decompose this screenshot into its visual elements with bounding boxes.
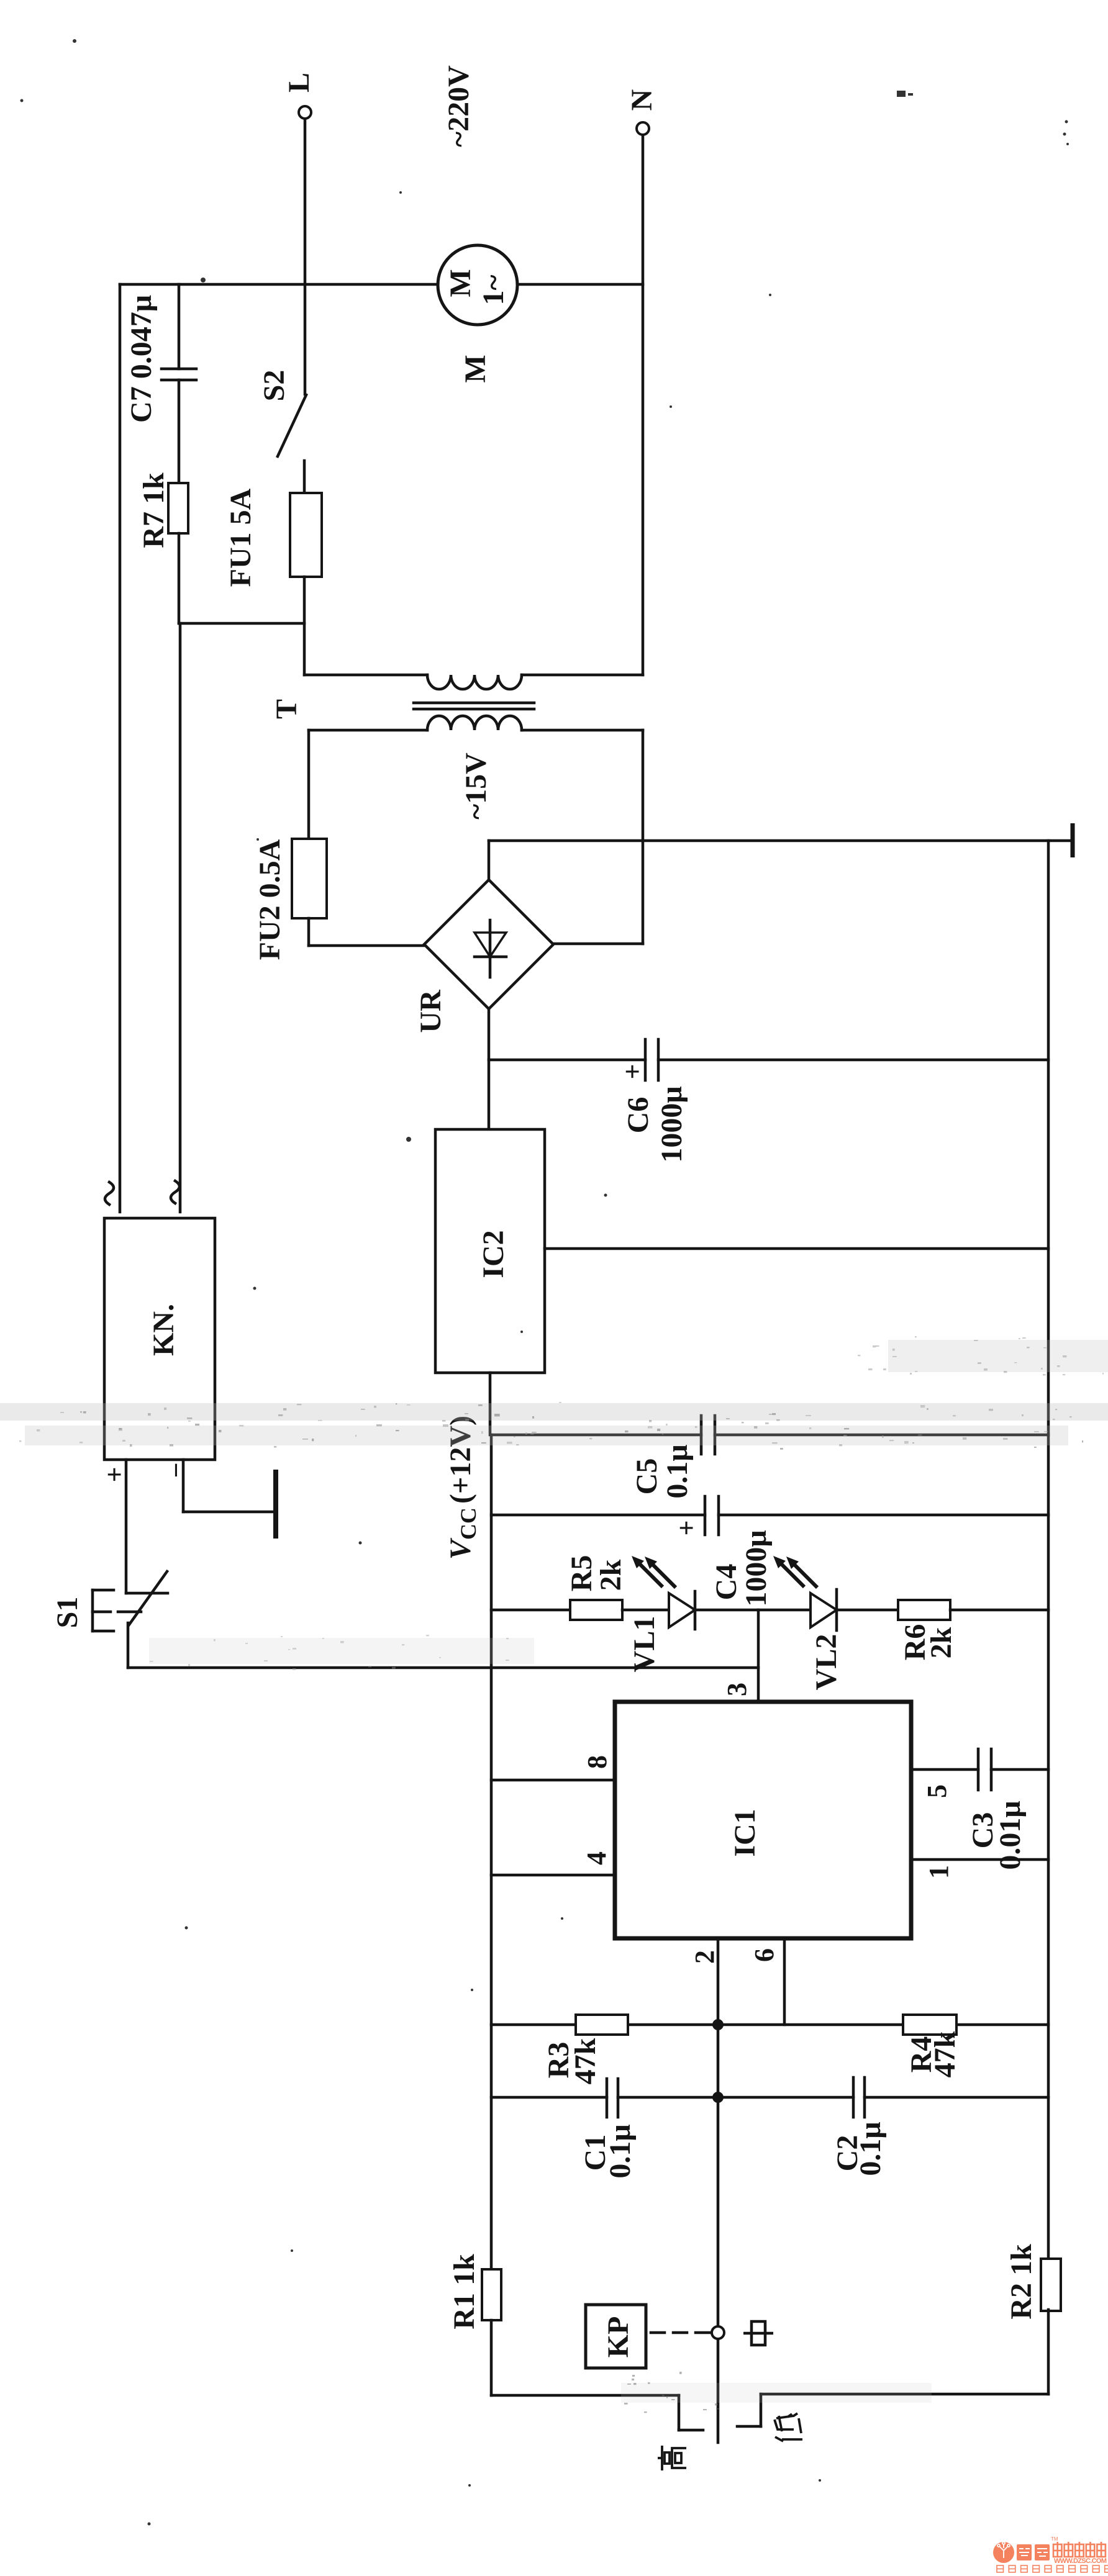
pin 1 wire (911, 1858, 1048, 1861)
svg-text:M: M (444, 269, 477, 297)
transformer T primary coil (427, 675, 522, 689)
wire top bus left (120, 283, 438, 286)
selector wiper node (712, 2326, 724, 2339)
LED VL2 (773, 1556, 843, 1690)
svg-text:S2: S2 (258, 370, 291, 402)
wire IC2 out to Vcc bus (489, 1373, 492, 1435)
svg-text:6: 6 (749, 1948, 779, 1962)
capacitor C7 0.047u (125, 284, 196, 483)
wire FU2 to bridge left (309, 918, 424, 946)
svg-text:1: 1 (924, 1865, 954, 1879)
pin 2 wire down (717, 1938, 720, 2327)
resistor R7 1k (137, 472, 188, 548)
wire ground line (489, 839, 1073, 843)
capacitor C5 0.1u (491, 1416, 1048, 1499)
switch S2 (258, 370, 306, 456)
pushbutton S1 (51, 1571, 168, 1631)
regulator IC2 (435, 1129, 545, 1373)
wire pin3 stub (757, 1610, 760, 1702)
wire VL2 to R6 (837, 1609, 898, 1612)
svg-text:4: 4 (581, 1851, 612, 1865)
wire bridge top to ground line (488, 841, 491, 880)
watermark slogan glyphs (997, 2565, 1004, 2572)
svg-text:C5: C5 (630, 1458, 663, 1495)
wire VL1 to VL2 with pin3 tap (694, 1609, 809, 1612)
power unit KN (104, 1218, 215, 1460)
junction dot pin2 C1 line (712, 2092, 724, 2103)
capacitor C1 0.1u (491, 2079, 853, 2179)
fuse FU2 0.5A (253, 839, 327, 960)
svg-text:0.1μ: 0.1μ (661, 1444, 694, 1498)
svg-text:1~: 1~ (477, 274, 510, 305)
resistor R6 2k (898, 1600, 958, 1660)
wire top bus right (517, 283, 643, 286)
svg-text:47k: 47k (569, 2038, 602, 2084)
selector wiper wire (717, 2339, 720, 2443)
dashed link KP to wiper (651, 2331, 711, 2334)
svg-text:N: N (625, 89, 658, 111)
svg-text:+: + (671, 1520, 702, 1535)
transformer T secondary wire left (309, 730, 427, 839)
resistor R2 1k (1005, 2244, 1061, 2320)
node L terminal (283, 73, 316, 119)
wire R2 down to low line (1047, 2310, 1050, 2394)
svg-text:UR: UR (414, 989, 447, 1033)
svg-text:WWW.DZSC.COM: WWW.DZSC.COM (1054, 2557, 1107, 2565)
label di (low) (774, 2413, 802, 2441)
AC mark tilde right wire (171, 1181, 179, 1203)
svg-text:M: M (459, 355, 492, 382)
capacitor C2 0.1u (831, 2077, 1048, 2176)
transformer T secondary coil (427, 716, 522, 730)
svg-text:−: − (161, 1462, 191, 1478)
wire S2 to FU1 (303, 461, 306, 493)
svg-text:KP: KP (602, 2316, 635, 2358)
transformer T secondary wire right (522, 730, 643, 944)
svg-text:R5: R5 (565, 1555, 598, 1592)
scan noise band (0, 1336, 1108, 2413)
svg-text:R7 1k: R7 1k (137, 472, 170, 548)
svg-text:0.1μ: 0.1μ (604, 2124, 637, 2178)
pin 5 wire (911, 1768, 1048, 1771)
svg-text:FU1 5A: FU1 5A (224, 488, 257, 587)
svg-text:3: 3 (722, 1683, 752, 1696)
svg-text:+: + (617, 1064, 648, 1079)
pin 4 wire (491, 1874, 615, 1877)
watermark title glyphs (1053, 2542, 1062, 2557)
svg-text:8: 8 (582, 1755, 612, 1769)
AC mark tilde left wire (105, 1182, 114, 1204)
svg-text:KN.: KN. (147, 1304, 180, 1356)
svg-text:R1 1k: R1 1k (448, 2254, 481, 2330)
svg-text:1000μ: 1000μ (655, 1086, 688, 1162)
wire Vcc bus (490, 1435, 493, 2269)
ground bar KN (273, 1470, 278, 1539)
svg-text:2k: 2k (925, 1627, 958, 1658)
svg-text:IC1: IC1 (729, 1809, 761, 1856)
label zhong (middle) (743, 2321, 773, 2345)
wire S1 down (127, 1623, 130, 1668)
fuse FU1 5A (224, 488, 322, 587)
svg-text:FU2 0.5A: FU2 0.5A (253, 839, 286, 960)
wire FU1 to primary (303, 577, 306, 675)
wire R7 down to jog and KN (178, 533, 181, 623)
label gao (high) (658, 2446, 686, 2470)
svg-text:5: 5 (922, 1784, 952, 1798)
wire jog R7 chain to fuse wire (179, 622, 304, 625)
svg-text:S1: S1 (51, 1597, 84, 1629)
wire low contact line (737, 2394, 1048, 2426)
svg-text:L: L (283, 73, 316, 93)
transformer T core (414, 703, 534, 709)
sensor KP (586, 2305, 646, 2368)
wire KN - to ground (183, 1460, 274, 1512)
svg-text:C4: C4 (710, 1564, 743, 1601)
wire KN + to S1 (125, 1460, 128, 1593)
bridge rectifier UR (414, 880, 553, 1033)
svg-text:2: 2 (689, 1950, 720, 1964)
svg-text:IC2: IC2 (477, 1230, 510, 1278)
svg-text:47k: 47k (929, 2031, 961, 2077)
capacitor C4 1000u (491, 1496, 1048, 1607)
resistor R1 1k (448, 2254, 501, 2330)
svg-text:VL2: VL2 (810, 1634, 843, 1691)
wire L down to S2 (304, 119, 307, 394)
ground terminal bar (1071, 823, 1075, 857)
resistor R4 47k (903, 2015, 961, 2077)
resistor R5 2k (565, 1555, 627, 1620)
wire N down to transformer primary (642, 135, 645, 675)
wire R1 down (490, 2320, 493, 2395)
node N terminal (625, 89, 658, 135)
svg-text:1000μ: 1000μ (740, 1530, 773, 1606)
wire S1 line to IC1 pin3 stub (128, 1666, 758, 1670)
transformer T primary wire right (522, 674, 643, 677)
svg-text:T: T (270, 699, 303, 719)
wire LED line from Vcc (491, 1609, 570, 1612)
wire IC2 mid pin to ground bus (545, 1247, 1048, 1250)
wire high contact line (491, 2395, 703, 2430)
svg-text:~15V: ~15V (460, 752, 493, 820)
capacitor C6 1000u (489, 1039, 1048, 1163)
svg-text:R2 1k: R2 1k (1005, 2244, 1038, 2320)
wire R6 to ground bus (950, 1609, 1048, 1612)
junction dot pin2 R3 line (712, 2019, 724, 2030)
svg-text:C6: C6 (622, 1097, 655, 1134)
svg-text:VL1: VL1 (628, 1616, 661, 1673)
wire right ground bus (1047, 841, 1050, 2259)
capacitor C3 0.01u (966, 1749, 1027, 1870)
motor M1 (438, 245, 517, 325)
wire R5 to VL1 (622, 1609, 667, 1612)
svg-text:2k: 2k (594, 1559, 627, 1591)
wire bridge bottom to IC2 (488, 1009, 491, 1129)
wire left border (119, 284, 122, 1212)
pin 6 wire down (783, 1938, 786, 2025)
pin 8 wire (491, 1779, 615, 1782)
svg-text:C7 0.047μ: C7 0.047μ (125, 295, 158, 423)
svg-text:0.1μ: 0.1μ (854, 2122, 887, 2176)
svg-text:~220V: ~220V (442, 65, 475, 147)
svg-text:TM: TM (1051, 2536, 1058, 2542)
timer IC1 (615, 1702, 911, 1938)
watermark weiku text (997, 2536, 1108, 2572)
resistor R3 47k (542, 2015, 628, 2084)
LED VL1 (628, 1556, 695, 1672)
transformer T primary wire left (304, 674, 427, 677)
wire R3 R4 line (491, 2023, 1048, 2027)
watermark dzsc logo (993, 2536, 1108, 2572)
